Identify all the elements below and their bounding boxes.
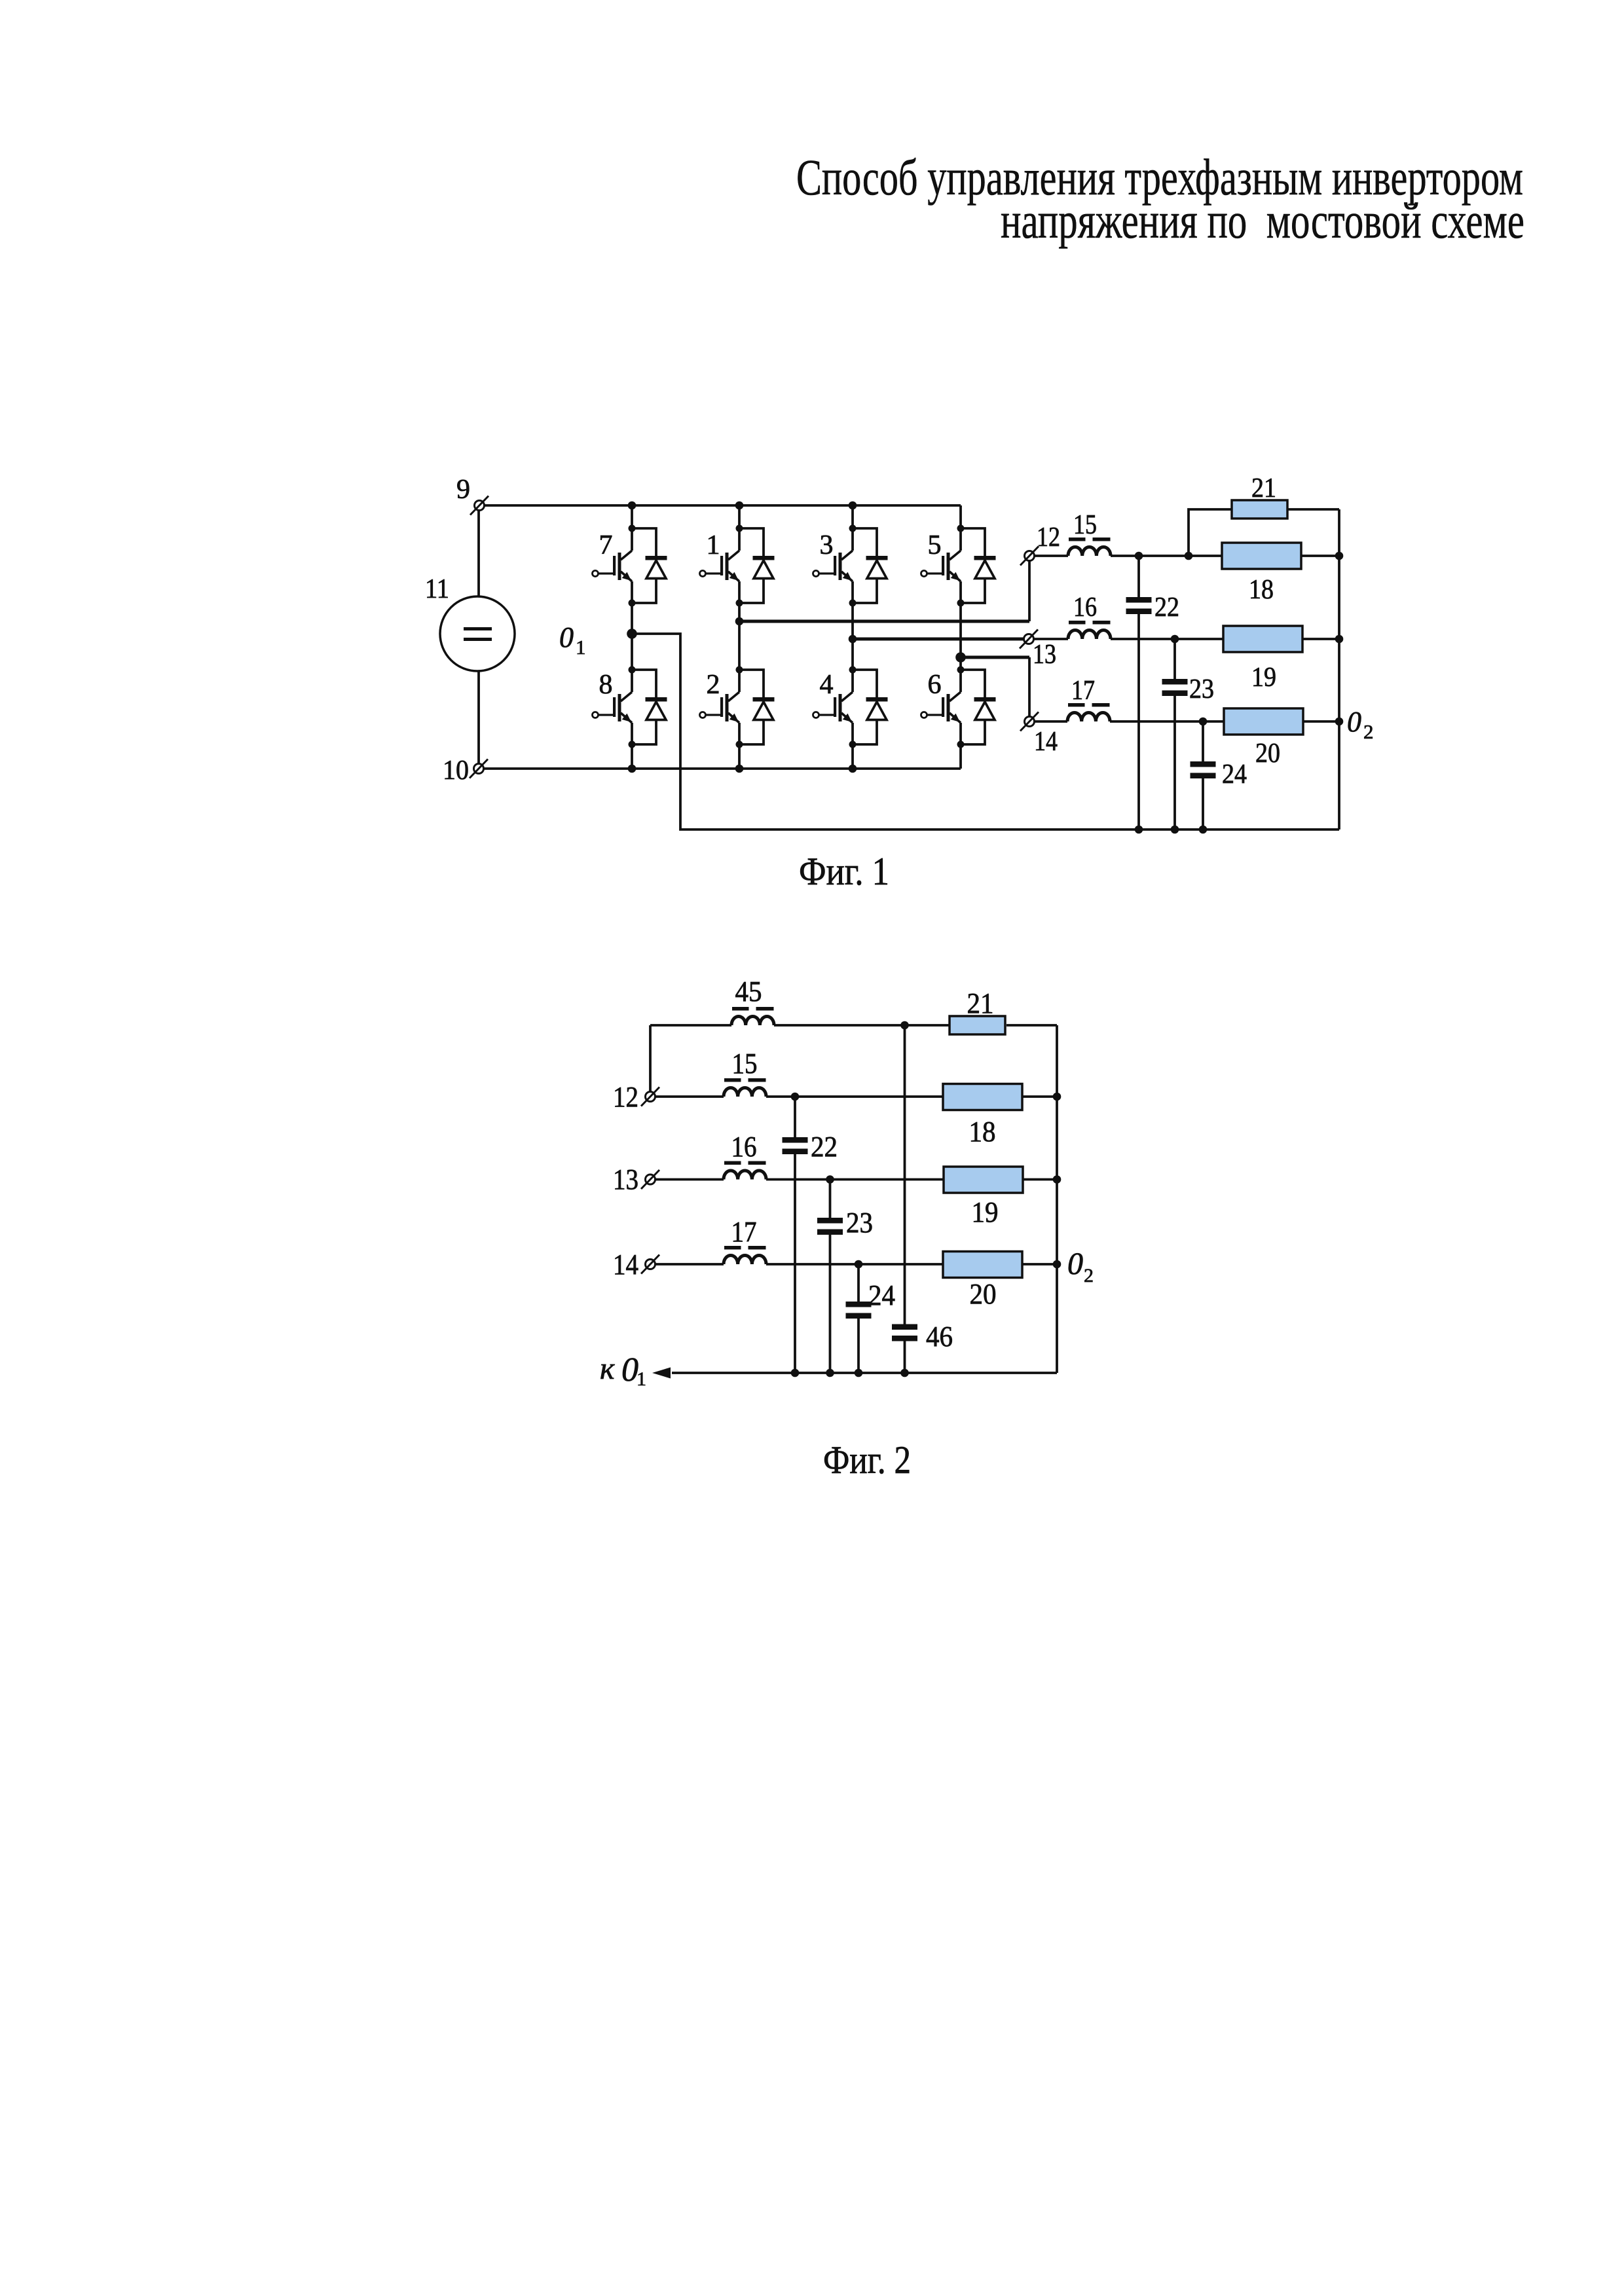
svg-text:18: 18 xyxy=(1249,575,1274,605)
svg-text:4: 4 xyxy=(820,670,834,700)
svg-text:13: 13 xyxy=(613,1163,638,1195)
svg-text:13: 13 xyxy=(1033,640,1056,670)
svg-text:9: 9 xyxy=(456,475,470,505)
svg-text:0: 0 xyxy=(1347,706,1361,738)
svg-text:2: 2 xyxy=(707,670,720,700)
svg-text:7: 7 xyxy=(599,530,613,560)
svg-text:1: 1 xyxy=(637,1368,646,1390)
svg-text:Фиг. 1: Фиг. 1 xyxy=(799,850,889,893)
svg-text:3: 3 xyxy=(820,530,834,560)
svg-text:20: 20 xyxy=(970,1278,997,1310)
svg-text:17: 17 xyxy=(731,1216,757,1248)
svg-text:22: 22 xyxy=(1154,592,1179,623)
svg-text:10: 10 xyxy=(443,756,469,786)
svg-text:напряжения по мостовой схеме: напряжения по мостовой схеме xyxy=(1001,192,1524,249)
svg-text:14: 14 xyxy=(613,1248,638,1281)
svg-text:8: 8 xyxy=(599,670,613,700)
svg-text:15: 15 xyxy=(1073,510,1097,540)
svg-text:21: 21 xyxy=(967,987,994,1019)
svg-text:12: 12 xyxy=(1037,522,1060,553)
svg-text:11: 11 xyxy=(425,574,449,604)
svg-text:14: 14 xyxy=(1034,727,1058,757)
svg-text:0: 0 xyxy=(1067,1247,1083,1281)
svg-text:12: 12 xyxy=(613,1081,638,1113)
svg-text:2: 2 xyxy=(1084,1265,1094,1286)
svg-text:к: к xyxy=(600,1351,615,1386)
svg-text:16: 16 xyxy=(731,1131,757,1163)
svg-text:20: 20 xyxy=(1255,738,1280,769)
svg-text:19: 19 xyxy=(972,1196,999,1228)
svg-text:24: 24 xyxy=(1222,759,1247,790)
svg-text:46: 46 xyxy=(926,1321,953,1353)
svg-text:23: 23 xyxy=(846,1207,873,1239)
svg-text:1: 1 xyxy=(576,636,586,659)
svg-text:15: 15 xyxy=(732,1048,758,1080)
svg-text:2: 2 xyxy=(1363,720,1374,743)
svg-text:23: 23 xyxy=(1189,674,1214,704)
svg-text:45: 45 xyxy=(735,975,762,1008)
svg-text:21: 21 xyxy=(1251,473,1276,503)
svg-text:Фиг. 2: Фиг. 2 xyxy=(823,1438,911,1482)
svg-text:5: 5 xyxy=(928,530,942,560)
svg-text:1: 1 xyxy=(707,530,720,560)
svg-text:6: 6 xyxy=(928,670,942,700)
svg-text:18: 18 xyxy=(969,1116,996,1148)
svg-text:16: 16 xyxy=(1073,592,1097,623)
svg-text:22: 22 xyxy=(811,1131,838,1163)
svg-text:24: 24 xyxy=(868,1279,895,1311)
svg-text:17: 17 xyxy=(1071,676,1095,706)
svg-text:19: 19 xyxy=(1251,663,1276,693)
svg-text:0: 0 xyxy=(559,621,574,653)
